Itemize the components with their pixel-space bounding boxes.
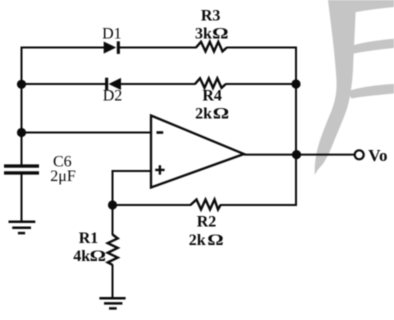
wire: R1 to ground [112,265,114,299]
svg-text:2μF: 2μF [50,168,76,185]
node: left junction at D2 row [17,80,26,89]
node: left junction at inverting row [17,128,26,137]
svg-text:R3: R3 [201,8,221,25]
terminal Vo open circle [355,150,364,159]
wire: top row right segment [227,47,298,49]
svg-text:4k: 4k [73,248,90,265]
capacitor C6 [4,166,39,173]
resistor R1 [108,235,118,265]
label C6 [53,154,72,171]
value label 2kΩ (R4) [195,105,229,123]
label D1 [102,25,122,42]
svg-text:Ω: Ω [90,247,106,264]
resistor R2 [191,200,221,210]
value label 3kΩ [195,24,228,42]
resistor R3 [196,42,227,52]
label D2 [103,88,123,105]
svg-text:Vo: Vo [368,146,387,165]
wire: junction to R1 [112,205,114,235]
diode D2 [105,78,121,91]
resistor R4 [195,78,226,88]
ground (below C6) [9,222,36,233]
svg-text:Ω: Ω [207,231,223,248]
wire: top row left segment [21,47,105,49]
node: right junction at D2 row [291,79,300,88]
svg-text:2k: 2k [195,106,212,123]
watermark glyph middle bar 1 [352,39,394,54]
svg-text:R2: R2 [197,214,217,231]
label R4 [202,88,222,105]
node: output junction [292,150,301,159]
wire: D2/R4 row middle segment [121,83,196,85]
value label 2kΩ (R2) [189,231,224,249]
watermark glyph middle bar 2 [350,84,394,99]
wire: D2/R4 row left segment [22,83,106,85]
label Vo [368,146,387,165]
diode D1 [104,41,120,54]
watermark glyph top bar [352,0,394,13]
wire: R2 row left segment [113,204,192,206]
svg-text:R4: R4 [202,88,222,105]
wire: capacitor to ground [21,175,23,222]
wire: noninverting input [113,170,152,205]
value label 2µF [50,168,76,185]
svg-text:D1: D1 [102,25,122,42]
ground (below R1) [99,298,125,308]
label R2 [197,214,217,231]
svg-text:Ω: Ω [213,105,229,122]
label R1 [79,230,99,247]
svg-text:Ω: Ω [212,24,228,41]
wire: right rail [295,47,297,207]
svg-text:R1: R1 [79,230,99,247]
svg-text:3k: 3k [195,25,212,42]
watermark glyph left leg [315,0,356,175]
wire: D2/R4 row right segment [226,83,297,85]
wire: inverting input [22,132,152,134]
node: junction R1/R2 [108,200,117,209]
svg-text:D2: D2 [103,88,123,105]
label R3 [201,8,221,25]
op-amp U1 [151,116,244,188]
wire: top row middle segment [120,47,197,49]
svg-text:2k: 2k [189,232,206,249]
wire: output [244,154,354,156]
wire: R2 row right segment [220,204,297,206]
value label 4kΩ [73,247,106,265]
wire: left rail [21,47,23,165]
